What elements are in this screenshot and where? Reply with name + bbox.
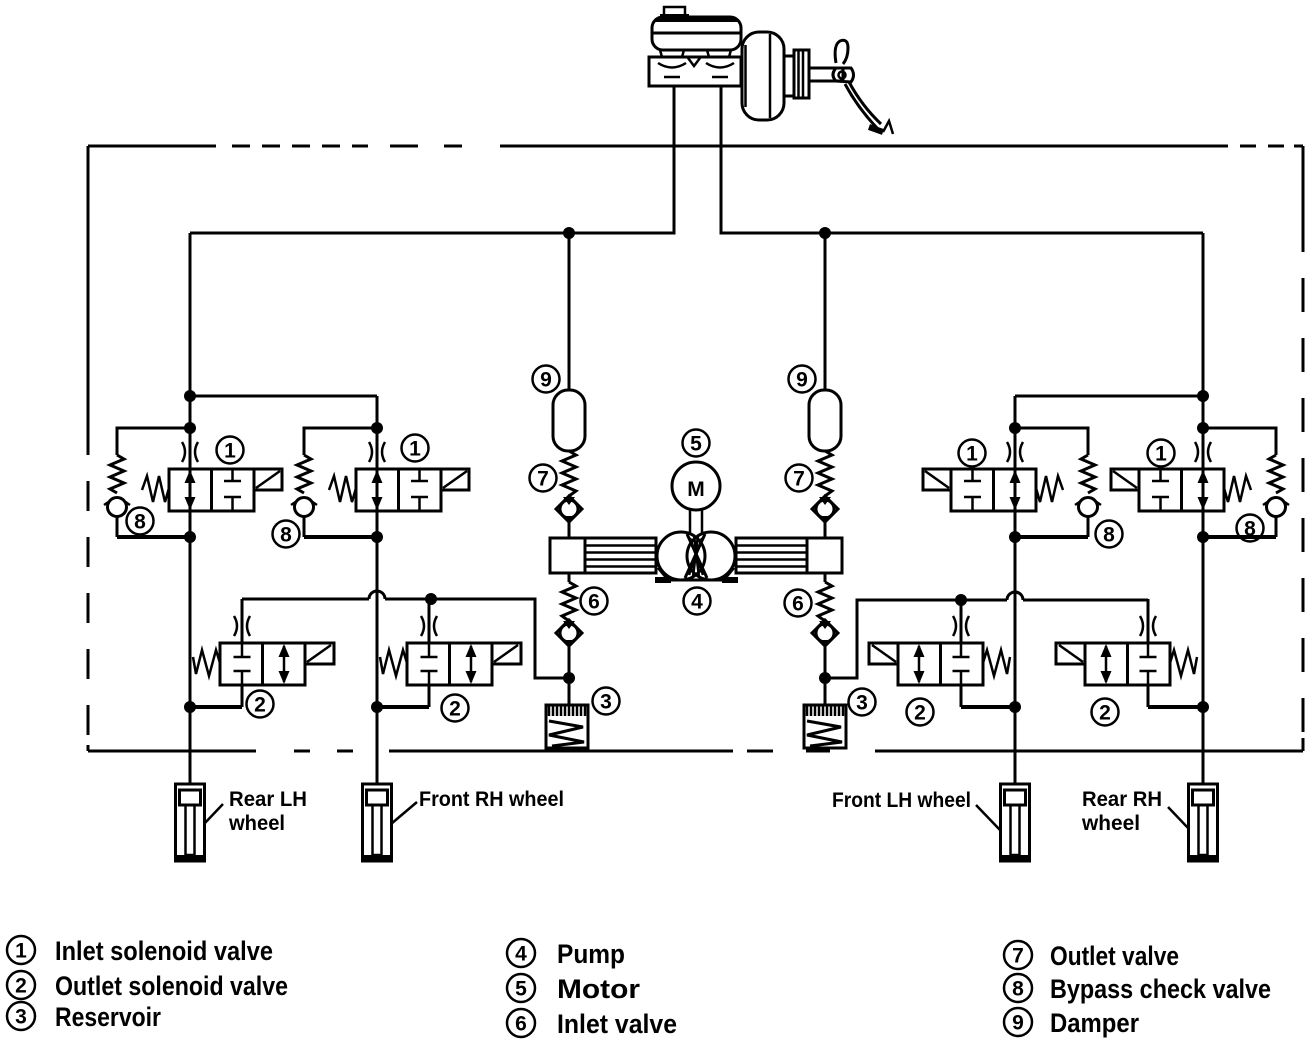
bypass check valve 8 (Front RH) [291,428,377,537]
wire: right branch header [1015,395,1203,398]
circled label 2 (Front LH outlet valve) [907,699,934,726]
inlet solenoid valve 1 (Front LH, mirrored) [923,442,1063,511]
circled label 2 (Rear RH outlet valve) [1092,699,1119,726]
circled label 7 (right outlet valve) [786,465,813,492]
circled label 1 (Front LH inlet valve) [959,440,986,467]
svg-text:Front RH wheel: Front RH wheel [419,788,564,811]
circled label 1 (Rear LH inlet valve) [217,437,244,464]
wire: left return line to reservoir [242,599,569,678]
circled label 3 (left reservoir) [593,688,620,715]
junction: left reservoir line [563,672,575,684]
circled label 8 (Rear LH bypass) [127,508,154,535]
svg-text:wheel: wheel [1081,812,1140,835]
svg-text:2: 2 [449,698,461,721]
brake pedal [833,40,893,134]
hydraulic unit enclosure (dashed box) [88,146,1303,751]
legend entry 9 [1004,1008,1139,1038]
svg-text:2: 2 [15,975,27,998]
wire: channel 3 main line (Front LH) [1014,396,1017,784]
leader line Front RH [391,802,417,824]
legend entry 5 [507,974,641,1004]
wire: master cylinder left port to left supply bus [190,86,674,233]
inlet solenoid valve 1 (Front RH) [329,442,469,511]
circled label 8 (Rear RH bypass) [1237,515,1264,542]
circled label 6 (left inlet valve) [581,588,608,615]
svg-text:Outlet solenoid valve: Outlet solenoid valve [55,971,288,1001]
junction: channel 3 bypass top [1009,422,1021,434]
circled label 4 (pump) [684,588,711,615]
svg-text:8: 8 [134,511,146,534]
svg-text:Inlet valve: Inlet valve [557,1009,677,1039]
circled label 3 (right reservoir) [849,689,876,716]
svg-text:4: 4 [515,943,527,966]
junction: channel 3 return line tap [955,594,967,606]
leader line Rear RH [1168,807,1189,829]
label Rear LH wheel [228,788,307,835]
legend entry 6 [507,1009,677,1039]
reservoir 3 (left) [546,705,588,748]
svg-text:1: 1 [15,940,27,963]
svg-text:6: 6 [515,1013,527,1036]
outlet solenoid valve 2 (Rear LH) [188,599,334,707]
outlet solenoid valve 2 (Front LH, mirrored) [869,599,1015,707]
svg-text:M: M [687,478,705,501]
junction dot: left damper to bus [563,227,575,239]
circled label 2 (Front RH outlet valve) [442,695,469,722]
svg-text:1: 1 [224,440,236,463]
svg-text:Reservoir: Reservoir [55,1002,161,1032]
wheel cylinder Rear LH [176,784,205,861]
motor M circle [672,462,720,510]
svg-text:9: 9 [796,369,808,392]
svg-text:3: 3 [600,691,612,714]
circled label 2 (Rear LH outlet valve) [247,691,274,718]
svg-text:1: 1 [409,438,421,461]
svg-text:Inlet solenoid valve: Inlet solenoid valve [55,936,273,966]
junction: channel 4 bypass top [1197,422,1209,434]
circled label 1 (Rear RH inlet valve) [1148,440,1175,467]
master cylinder reservoir tank [652,17,741,57]
svg-text:Rear RH: Rear RH [1082,788,1162,811]
damper 9 and outlet valve 7 column (left) [553,233,585,538]
bypass check valve 8 (Rear LH) [104,428,190,537]
master cylinder body [649,57,741,86]
legend entry 2 [7,971,288,1001]
legend entry 4 [507,939,625,969]
bridge hop over channel 3 line [1007,592,1023,600]
legend entry 1 [7,936,273,966]
junction: channel 2 bypass top [371,422,383,434]
circled label 8 (Front LH bypass) [1096,521,1123,548]
junction dot: right damper to bus [819,227,831,239]
master cylinder reservoir cap [660,7,689,17]
svg-text:5: 5 [690,433,702,456]
junction: channel 4 branch header [1197,390,1209,402]
svg-text:5: 5 [515,978,527,1001]
svg-text:8: 8 [1103,524,1115,547]
wire: channel 2 main line (Front RH) [376,396,379,784]
svg-text:3: 3 [15,1006,27,1029]
svg-text:4: 4 [691,591,703,614]
junction: channel 3 outlet valve return [1009,701,1021,713]
junction: channel 1 bypass bottom [184,531,196,543]
svg-text:9: 9 [540,369,552,392]
label Rear RH wheel [1081,788,1162,835]
svg-text:Outlet valve: Outlet valve [1050,941,1179,971]
junction: channel 2 return line tap [425,593,437,605]
junction: channel 1 outlet valve return [184,701,196,713]
circled label 1 (Front RH inlet valve) [402,435,429,462]
outlet solenoid valve 2 (Front RH) [375,599,521,707]
bridge hop over channel 2 line [369,591,385,599]
legend entry 3 [7,1002,161,1032]
svg-text:6: 6 [588,591,600,614]
svg-text:2: 2 [1099,702,1111,725]
svg-text:1: 1 [966,443,978,466]
svg-text:7: 7 [1012,945,1024,968]
junction: channel 1 bypass top [184,422,196,434]
damper 9 and outlet valve 7 column (right) [809,233,841,538]
svg-text:8: 8 [1012,978,1024,1001]
circled label 6 (right inlet valve) [785,590,812,617]
svg-text:wheel: wheel [228,812,285,835]
reservoir 3 (right) [804,705,846,748]
svg-text:2: 2 [914,702,926,725]
svg-text:3: 3 [856,692,868,715]
svg-text:1: 1 [1155,443,1167,466]
junction: channel 3 bypass bottom [1009,531,1021,543]
junction: channel 1 branch header [184,390,196,402]
inlet valve 6 column (right) [812,573,838,705]
booster to pedal linkage [784,50,843,98]
circled label 7 (left outlet valve) [530,465,557,492]
junction: channel 2 outlet valve return [371,701,383,713]
circled label 9 (left damper) [533,366,560,393]
outlet solenoid valve 2 (Rear RH, mirrored) [1056,599,1202,707]
wheel cylinder Rear RH [1189,784,1218,861]
wire: channel 4 main line (Rear RH) [1202,233,1205,784]
junction: channel 2 bypass bottom [371,531,383,543]
svg-text:2: 2 [254,694,266,717]
svg-text:8: 8 [1244,518,1256,541]
wire: channel 1 main line (Rear LH) [189,233,192,784]
svg-text:6: 6 [792,593,804,616]
inlet valve 6 column (left) [556,573,582,705]
circled label 9 (right damper) [789,366,816,393]
legend entry 7 [1004,941,1179,971]
svg-text:8: 8 [280,524,292,547]
svg-text:9: 9 [1012,1012,1024,1035]
inlet solenoid valve 1 (Rear RH, mirrored) [1111,442,1251,511]
inlet solenoid valve 1 (Rear LH) [142,442,282,511]
leader line Front LH [976,805,1000,830]
legend entry 8 [1004,974,1271,1004]
pump assembly [550,532,842,580]
wire: right return line to reservoir [825,600,1148,678]
svg-text:Pump: Pump [557,939,625,969]
circled label 8 (Front RH bypass) [273,521,300,548]
svg-text:Bypass check valve: Bypass check valve [1050,974,1271,1004]
wire: master cylinder right port to right supply bus [721,86,1203,233]
svg-text:Damper: Damper [1050,1008,1139,1038]
bypass check valve 8 (Rear RH, mirrored) [1203,428,1289,537]
svg-text:7: 7 [793,468,805,491]
svg-text:Front LH wheel: Front LH wheel [832,789,971,812]
junction: channel 4 outlet valve return [1197,701,1209,713]
wire: left branch header [190,395,377,398]
leader line Rear LH [204,804,223,824]
svg-text:Rear LH: Rear LH [229,788,307,811]
bypass check valve 8 (Front LH, mirrored) [1015,428,1101,537]
junction: right reservoir line [819,672,831,684]
wheel cylinder Front RH [363,784,392,861]
junction: channel 4 bypass bottom [1197,531,1209,543]
motor shaft [690,510,702,533]
circled label 5 (motor) [683,430,710,457]
wheel cylinder Front LH [1001,784,1030,861]
svg-text:Motor: Motor [557,974,641,1004]
brake booster [742,32,784,120]
svg-text:7: 7 [537,468,549,491]
